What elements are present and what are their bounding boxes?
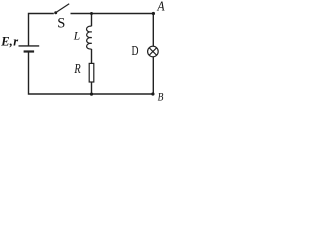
svg-text:r: r [13, 34, 18, 48]
svg-text:D: D [132, 43, 139, 58]
svg-text:S: S [57, 16, 65, 32]
svg-text:R: R [74, 62, 81, 77]
svg-text:E,: E, [0, 34, 12, 48]
svg-text:L: L [73, 31, 80, 43]
svg-text:B: B [158, 90, 164, 102]
svg-text:A: A [157, 0, 165, 15]
